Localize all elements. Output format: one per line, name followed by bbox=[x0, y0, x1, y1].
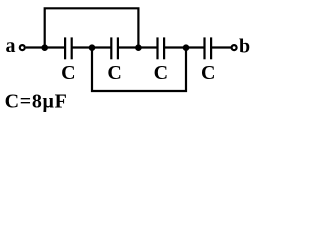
svg-text:a: a bbox=[6, 35, 16, 57]
node 1 junction dot bbox=[41, 44, 48, 51]
capacitor C4 bbox=[205, 37, 212, 59]
bottom bridge wire node2 to node4 bbox=[92, 48, 186, 92]
terminal b bbox=[232, 45, 237, 50]
terminal a bbox=[20, 45, 25, 50]
svg-text:C: C bbox=[61, 62, 75, 84]
capacitor C1 bbox=[65, 37, 72, 59]
svg-text:C=8μF: C=8μF bbox=[5, 91, 68, 113]
node 3 junction dot bbox=[135, 44, 142, 51]
wire node 2 to C2 bbox=[92, 46, 111, 48]
svg-text:C: C bbox=[107, 62, 121, 84]
svg-text:C: C bbox=[201, 62, 215, 84]
node 2 junction dot bbox=[89, 44, 96, 51]
wire C1 to node 2 bbox=[72, 46, 92, 48]
wire a to node 1 bbox=[26, 46, 45, 48]
wire node 1 to C1 bbox=[45, 46, 65, 48]
wire C4 to terminal b bbox=[211, 46, 231, 48]
wire C3 to node 4 bbox=[164, 46, 186, 48]
node 4 junction dot bbox=[183, 44, 190, 51]
wire C2 to node 3 bbox=[118, 46, 138, 48]
svg-text:C: C bbox=[154, 62, 168, 84]
top bridge wire node1 to node3 bbox=[45, 8, 139, 47]
capacitor C2 bbox=[111, 37, 118, 59]
wire node 4 to C4 bbox=[186, 46, 205, 48]
svg-text:b: b bbox=[239, 35, 250, 57]
wire node 3 to C3 bbox=[138, 46, 157, 48]
capacitor C3 bbox=[158, 37, 165, 59]
